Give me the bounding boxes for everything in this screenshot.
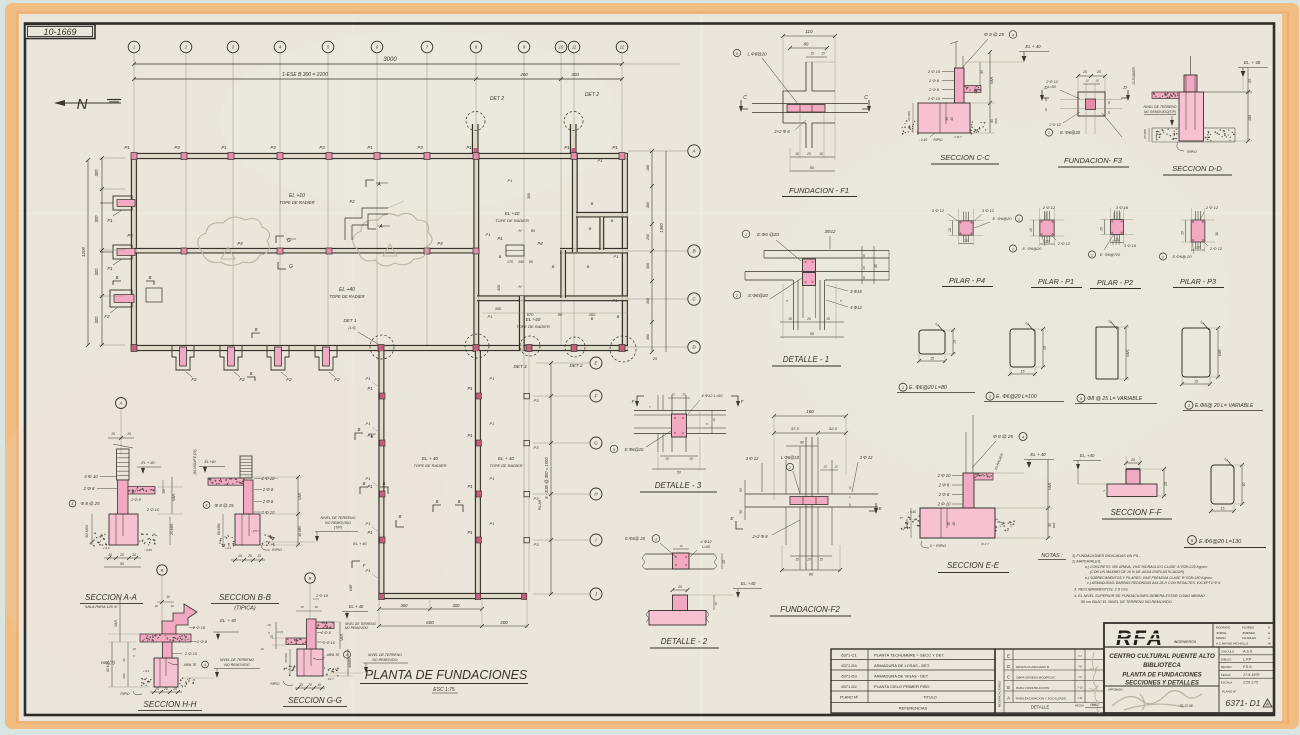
fundacion F3: left labels bbox=[1044, 80, 1080, 112]
seccion D-D: title bbox=[1163, 164, 1232, 175]
pilar P1 bbox=[1029, 208, 1065, 246]
svg-text:DIBUJO: DIBUJO bbox=[1221, 657, 1232, 661]
svg-text:B: B bbox=[250, 371, 253, 376]
svg-text:L Φ6@20: L Φ6@20 bbox=[747, 52, 767, 57]
detalle 1: slab lines bbox=[745, 251, 889, 281]
room divider x602 bbox=[600, 217, 604, 250]
svg-text:E.Φ6@20 L=130: E.Φ6@20 L=130 bbox=[1199, 539, 1242, 545]
svg-text:20: 20 bbox=[1195, 246, 1200, 250]
svg-text:DET 2: DET 2 bbox=[585, 92, 599, 98]
svg-text:VAR.: VAR. bbox=[1048, 482, 1052, 490]
detalle 3: bottom dims bbox=[652, 437, 706, 475]
seccion E-E: column bbox=[963, 473, 974, 508]
svg-text:2 Φ 10: 2 Φ 10 bbox=[146, 507, 160, 512]
svg-text:50 cm BAJO EL NIVEL DE TERREN: 50 cm BAJO EL NIVEL DE TERRENO NO REMOVI… bbox=[1081, 600, 1173, 604]
svg-text:P4: P4 bbox=[127, 233, 133, 238]
wing left wall bbox=[379, 351, 384, 600]
detalle 3: callout 5 bbox=[610, 431, 671, 453]
stirrup type 1 bbox=[917, 322, 957, 363]
svg-text:11: 11 bbox=[572, 45, 576, 50]
pilar P1 title bbox=[1031, 277, 1082, 288]
svg-text:RIPIO: RIPIO bbox=[934, 138, 943, 142]
svg-text:10: 10 bbox=[679, 544, 683, 548]
svg-text:3 Φ 12: 3 Φ 12 bbox=[746, 456, 759, 461]
wing left small marks bbox=[345, 427, 376, 630]
svg-text:1: 1 bbox=[133, 45, 135, 50]
svg-text:DET 1: DET 1 bbox=[343, 318, 356, 323]
svg-text:P1: P1 bbox=[490, 521, 495, 526]
svg-text:300: 300 bbox=[94, 268, 99, 276]
svg-text:A: A bbox=[119, 401, 123, 406]
stirrup note 4 bbox=[1075, 394, 1157, 403]
section G-G: bottom dims + ripio bbox=[270, 677, 334, 690]
svg-text:PLANO Nº: PLANO Nº bbox=[840, 696, 859, 700]
svg-text:P3: P3 bbox=[534, 445, 540, 450]
svg-text:5 - EJE @ 300 = 1500: 5 - EJE @ 300 = 1500 bbox=[544, 457, 549, 499]
section G-G: title bbox=[283, 696, 347, 707]
svg-text:P1: P1 bbox=[614, 254, 619, 259]
svg-text:2+2 Φ 8: 2+2 Φ 8 bbox=[751, 534, 768, 539]
svg-text:4: 4 bbox=[1022, 435, 1024, 439]
svg-text:4 Φ12 L=60: 4 Φ12 L=60 bbox=[701, 393, 723, 398]
svg-text:TOPE DE RADIER: TOPE DE RADIER bbox=[279, 200, 314, 205]
section B-B: right dim bbox=[245, 475, 303, 547]
B section cut marks below wall bbox=[247, 327, 260, 381]
svg-text:G: G bbox=[594, 441, 598, 446]
row label circles A-D bbox=[628, 145, 700, 353]
detalle 3: F cut marks bbox=[632, 396, 745, 407]
section H-H: left dims bbox=[106, 600, 150, 687]
svg-text:3Φ12: 3Φ12 bbox=[824, 229, 836, 234]
svg-text:7-8: 7-8 bbox=[1078, 665, 1082, 669]
svg-text:10: 10 bbox=[1044, 98, 1048, 102]
svg-text:60 MIN.: 60 MIN. bbox=[217, 523, 221, 536]
seccion D-D: level EL+40 bbox=[1203, 60, 1268, 92]
stirrup type 2 bbox=[1008, 321, 1047, 376]
svg-text:5: 5 bbox=[613, 448, 615, 452]
svg-text:25: 25 bbox=[1096, 70, 1101, 74]
fundacion F1: label 2+2 bbox=[773, 120, 806, 134]
DET labels at bottom wall joints bbox=[343, 318, 582, 369]
section G-G: right dims bbox=[323, 622, 353, 676]
section A-A: pink column bbox=[118, 480, 129, 514]
svg-text:2 Φ 8: 2 Φ 8 bbox=[130, 498, 141, 502]
svg-text:NOTAS :: NOTAS : bbox=[1041, 553, 1063, 559]
svg-text:10: 10 bbox=[848, 503, 852, 507]
room wall x563 bbox=[561, 250, 565, 298]
svg-text:10: 10 bbox=[260, 647, 264, 651]
corridor wall right span bbox=[560, 249, 628, 253]
seccion D-D: slab strip left bbox=[1152, 92, 1179, 99]
svg-text:- 0,40: - 0,40 bbox=[919, 138, 928, 142]
svg-text:40: 40 bbox=[1242, 483, 1246, 487]
svg-text:VAR.: VAR. bbox=[1218, 349, 1222, 357]
svg-text:- 0,80: - 0,80 bbox=[144, 548, 152, 552]
svg-text:3 Φ 16: 3 Φ 16 bbox=[1124, 243, 1137, 248]
svg-text:4. EL NIVEL SUPERIOR DE FUNDAC: 4. EL NIVEL SUPERIOR DE FUNDACIONES DEBE… bbox=[1074, 594, 1205, 598]
svg-text:NO REMOVIDO: NO REMOVIDO bbox=[372, 658, 398, 662]
svg-text:EL + 40: EL + 40 bbox=[498, 456, 514, 461]
svg-text:A.: A. bbox=[1268, 631, 1271, 635]
seccion E-E: slab arm bbox=[974, 473, 993, 480]
svg-text:2+2 Φ 8: 2+2 Φ 8 bbox=[773, 129, 790, 134]
svg-text:JORGE: JORGE bbox=[1216, 631, 1226, 635]
svg-text:6371-C1: 6371-C1 bbox=[841, 653, 857, 658]
svg-text:MIN: MIN bbox=[994, 117, 998, 123]
svg-text:P1: P1 bbox=[564, 145, 570, 150]
svg-text:20 MIN: 20 MIN bbox=[907, 110, 911, 122]
stirrup note 1 bbox=[897, 383, 975, 392]
svg-text:10: 10 bbox=[154, 604, 158, 608]
svg-text:380: 380 bbox=[646, 201, 650, 208]
fundacion F1: bottom dims bbox=[790, 62, 835, 173]
svg-text:MIN.: MIN. bbox=[1052, 522, 1056, 528]
left dim chain 300s bbox=[94, 156, 125, 347]
svg-text:A: A bbox=[378, 224, 383, 230]
svg-text:2 Φ 12: 2 Φ 12 bbox=[1205, 205, 1219, 210]
fundacion F3: bottom labels bbox=[1045, 112, 1122, 137]
detalle 3: top dims + label bbox=[668, 393, 723, 415]
svg-text:PLANTA TECHUMBRE = SECC Y DE: PLANTA TECHUMBRE = SECC Y DET. bbox=[874, 653, 945, 658]
svg-text:2 Φ 12: 2 Φ 12 bbox=[1209, 246, 1223, 251]
svg-text:60 MIN.: 60 MIN. bbox=[106, 660, 110, 672]
svg-text:100: 100 bbox=[1248, 115, 1252, 121]
svg-text:20: 20 bbox=[677, 585, 682, 589]
svg-text:20: 20 bbox=[1180, 231, 1184, 236]
fundacion F2: left labels bbox=[746, 455, 873, 494]
svg-text:50: 50 bbox=[677, 471, 681, 475]
svg-text:REVISO: REVISO bbox=[1221, 665, 1232, 669]
pilar P3 title bbox=[1173, 277, 1224, 288]
svg-text:P3: P3 bbox=[270, 145, 276, 150]
svg-text:40: 40 bbox=[950, 117, 954, 121]
section A-A: soil dots bbox=[90, 533, 108, 547]
svg-text:P1: P1 bbox=[488, 314, 493, 319]
svg-text:EL. + 40: EL. + 40 bbox=[1244, 60, 1261, 65]
svg-text:7-7: 7-7 bbox=[1078, 654, 1082, 658]
svg-text:2 Φ 10: 2 Φ 10 bbox=[927, 96, 941, 101]
svg-text:30: 30 bbox=[980, 70, 984, 74]
section H-H: stair zigzag arm bbox=[162, 604, 197, 634]
wing column markers bbox=[367, 386, 539, 600]
svg-text:EL. +40: EL. +40 bbox=[741, 581, 756, 586]
svg-text:20: 20 bbox=[162, 489, 166, 494]
svg-text:300: 300 bbox=[589, 312, 596, 317]
section A-A: rebar labels bbox=[69, 461, 161, 512]
detalle 3: right dims bbox=[649, 405, 716, 434]
north arrow bbox=[54, 96, 121, 113]
svg-text:2 Φ 10: 2 Φ 10 bbox=[261, 510, 275, 515]
section H-H: footing bbox=[154, 658, 178, 687]
svg-text:B: B bbox=[611, 218, 614, 223]
section A-A: 60 MIN rotated bbox=[85, 514, 174, 552]
svg-text:2 Φ 8: 2 Φ 8 bbox=[320, 631, 331, 635]
svg-text:P1: P1 bbox=[221, 145, 227, 150]
svg-text:3000: 3000 bbox=[383, 57, 397, 63]
svg-text:B: B bbox=[363, 481, 366, 486]
svg-text:2 Φ 10: 2 Φ 10 bbox=[937, 473, 951, 478]
right vertical dim chain bbox=[646, 149, 666, 361]
svg-text:15: 15 bbox=[1021, 370, 1025, 374]
svg-text:DET 3: DET 3 bbox=[513, 364, 526, 369]
svg-text:20: 20 bbox=[806, 558, 811, 562]
svg-text:F2: F2 bbox=[191, 377, 197, 382]
fundacion F1: wall cross plan bbox=[752, 62, 868, 148]
seccion E-E: formwork above column bbox=[966, 415, 973, 473]
room wall x520 lower bbox=[520, 296, 525, 351]
dim leader right top bbox=[622, 63, 680, 65]
svg-text:PLANTA CIELO PRIMER PISO: PLANTA CIELO PRIMER PISO bbox=[874, 684, 930, 689]
section B-B: brick column above bbox=[240, 456, 252, 478]
svg-text:RIPIO: RIPIO bbox=[272, 548, 282, 552]
svg-text:60 MIN.: 60 MIN. bbox=[85, 524, 89, 537]
svg-text:P1: P1 bbox=[486, 232, 491, 237]
modifications block bbox=[995, 649, 1104, 713]
corridor wall left span bbox=[134, 249, 479, 253]
section H-H: column bbox=[163, 642, 173, 664]
svg-text:1: 1 bbox=[902, 385, 904, 390]
svg-text:10: 10 bbox=[689, 457, 693, 461]
svg-text:VAR.: VAR. bbox=[114, 619, 118, 627]
svg-text:7-10: 7-10 bbox=[1077, 686, 1083, 690]
svg-text:15: 15 bbox=[795, 152, 799, 156]
fundacion F1: top dims bbox=[781, 29, 837, 160]
svg-text:P1: P1 bbox=[366, 476, 371, 481]
signature area bbox=[1104, 686, 1219, 710]
stirrup type 5 bbox=[1209, 457, 1246, 513]
svg-text:300: 300 bbox=[571, 72, 579, 77]
columns on bottom wall bbox=[131, 345, 625, 352]
svg-text:10: 10 bbox=[132, 647, 136, 651]
svg-text:TITULO: TITULO bbox=[923, 696, 937, 700]
svg-text:15: 15 bbox=[173, 687, 177, 691]
svg-text:NO REMOVIDO(TIP): NO REMOVIDO(TIP) bbox=[1144, 110, 1176, 114]
detalle 1: wall verticals below bbox=[794, 280, 825, 330]
svg-text:Φ 8 @ 25: Φ 8 @ 25 bbox=[214, 503, 234, 508]
svg-text:DET 2: DET 2 bbox=[569, 363, 582, 368]
svg-text:15: 15 bbox=[819, 558, 823, 562]
seccion C-C: callout top bbox=[950, 31, 1017, 68]
section B-B: EL+40 bbox=[199, 460, 225, 473]
section A-A: footing bbox=[109, 514, 138, 545]
svg-text:DETALLE - 2: DETALLE - 2 bbox=[661, 637, 708, 646]
svg-text:15: 15 bbox=[788, 317, 792, 321]
svg-text:4 Φ 10: 4 Φ 10 bbox=[84, 474, 98, 479]
svg-text:EL +40: EL +40 bbox=[526, 317, 541, 322]
svg-text:180: 180 bbox=[646, 164, 650, 171]
detalle 2: upper band bbox=[642, 554, 717, 569]
svg-text:FECHA: FECHA bbox=[1075, 704, 1084, 708]
svg-text:4: 4 bbox=[72, 502, 74, 506]
svg-text:P1: P1 bbox=[366, 376, 371, 381]
engineer names bbox=[1213, 623, 1272, 647]
svg-text:P1: P1 bbox=[367, 386, 372, 391]
svg-text:(TIP): (TIP) bbox=[334, 526, 342, 530]
svg-text:3 Φ 12: 3 Φ 12 bbox=[932, 208, 945, 213]
svg-text:15: 15 bbox=[238, 554, 242, 558]
svg-text:20: 20 bbox=[1130, 458, 1135, 462]
svg-text:P1: P1 bbox=[598, 158, 603, 163]
svg-text:P4: P4 bbox=[437, 241, 443, 246]
seccion C-C: footing bbox=[918, 103, 970, 133]
svg-text:10-RADIER: 10-RADIER bbox=[1132, 67, 1136, 85]
section H-H: bottom dims bbox=[120, 669, 182, 696]
svg-text:4: 4 bbox=[206, 504, 208, 508]
svg-text:300: 300 bbox=[646, 297, 650, 304]
section G-G: labels bbox=[267, 623, 350, 660]
section B-B: footing bbox=[235, 514, 260, 545]
svg-text:3 Φ 12: 3 Φ 12 bbox=[982, 208, 995, 213]
svg-text:10: 10 bbox=[1107, 111, 1111, 115]
svg-text:300: 300 bbox=[94, 316, 99, 324]
seccion F-F: title bbox=[1102, 508, 1172, 519]
svg-text:3 Φ 16: 3 Φ 16 bbox=[1116, 205, 1129, 210]
svg-text:EL + 40: EL + 40 bbox=[353, 541, 367, 546]
svg-text:20: 20 bbox=[806, 317, 811, 321]
svg-text:D: D bbox=[1007, 664, 1010, 669]
svg-text:- 0,40: - 0,40 bbox=[908, 510, 916, 514]
svg-text:25: 25 bbox=[1043, 346, 1047, 351]
detalle 1: bottom dims bbox=[780, 284, 844, 339]
section G-G: EL+40 level bbox=[334, 604, 368, 622]
fundacion F3: D cut marks bbox=[1040, 85, 1130, 115]
svg-text:2 Φ 10: 2 Φ 10 bbox=[322, 641, 336, 645]
section A-A: below dims bbox=[104, 553, 141, 567]
fundacion F2: lower labels bbox=[751, 520, 842, 577]
svg-text:C: C bbox=[743, 95, 747, 101]
svg-text:50: 50 bbox=[739, 510, 743, 514]
svg-text:970: 970 bbox=[527, 312, 534, 317]
section B-B: terrain note bbox=[262, 516, 358, 542]
svg-text:5 ~ RIPIO: 5 ~ RIPIO bbox=[930, 544, 946, 548]
svg-text:P3: P3 bbox=[417, 145, 423, 150]
svg-text:6371-D4: 6371-D4 bbox=[841, 663, 857, 668]
svg-text:600: 600 bbox=[426, 620, 434, 625]
svg-text:ARMADURA DE VIGAS - DET: ARMADURA DE VIGAS - DET bbox=[874, 674, 929, 679]
section H-H: slab bbox=[140, 634, 191, 642]
svg-text:2 Φ ?: 2 Φ ? bbox=[953, 135, 962, 139]
svg-text:PLANTA DE FUNDACIONES: PLANTA DE FUNDACIONES bbox=[365, 668, 528, 682]
svg-text:1200: 1200 bbox=[81, 246, 86, 257]
svg-text:2 Φ 8: 2 Φ 8 bbox=[928, 78, 940, 83]
svg-text:TOPE DE RADIER: TOPE DE RADIER bbox=[490, 463, 523, 468]
seccion F-F: pink T bbox=[1107, 469, 1157, 497]
svg-text:2 Φ 10: 2 Φ 10 bbox=[184, 651, 198, 656]
svg-text:1: 1 bbox=[1048, 131, 1050, 135]
fundacion F1: title bbox=[782, 186, 857, 197]
svg-text:2 Φ 12: 2 Φ 12 bbox=[1048, 123, 1062, 127]
svg-text:SECCION A-A: SECCION A-A bbox=[85, 593, 137, 602]
svg-text:30: 30 bbox=[974, 90, 978, 94]
svg-text:SECCION H-H: SECCION H-H bbox=[144, 700, 197, 709]
seccion E-E: callout top bbox=[972, 433, 1027, 469]
svg-text:2 Φ 8: 2 Φ 8 bbox=[928, 87, 940, 92]
svg-text:B: B bbox=[499, 254, 502, 259]
svg-text:17-5-1978: 17-5-1978 bbox=[1243, 673, 1259, 677]
svg-text:E. Φ6@20: E. Φ6@20 bbox=[1023, 246, 1043, 251]
svg-text:NO REMOVIDO: NO REMOVIDO bbox=[345, 626, 369, 630]
section G-G: soil bbox=[284, 665, 296, 676]
fundacion F2: title bbox=[770, 605, 851, 616]
svg-text:E.Φ6@20: E.Φ6@20 bbox=[748, 293, 768, 298]
wing radier labels bbox=[414, 456, 523, 468]
seccion C-C: column bbox=[955, 68, 965, 103]
svg-text:P1: P1 bbox=[366, 568, 371, 573]
outer dim 1200 bbox=[81, 158, 90, 347]
svg-text:VAR.: VAR. bbox=[990, 76, 994, 84]
stirrup note 5 bbox=[1184, 536, 1266, 548]
room wall y215 bbox=[576, 213, 628, 217]
seccion C-C: title bbox=[931, 153, 999, 164]
svg-text:20 MIN.: 20 MIN. bbox=[170, 523, 174, 536]
top stub column 8 bbox=[473, 124, 478, 154]
seccion D-D: terrain note bbox=[1144, 105, 1177, 126]
svg-text:SECCION F-F: SECCION F-F bbox=[1110, 508, 1162, 517]
stirrup note 2 bbox=[984, 392, 1064, 401]
svg-text:SECCION B-B: SECCION B-B bbox=[219, 593, 272, 602]
svg-text:400: 400 bbox=[520, 72, 528, 77]
svg-text:P1: P1 bbox=[490, 476, 495, 481]
section B-B: pink column bbox=[244, 480, 254, 514]
section H-H: terrain note bbox=[183, 658, 260, 678]
svg-text:2 Φ 12: 2 Φ 12 bbox=[1042, 205, 1056, 210]
svg-text:2 Φ 8: 2 Φ 8 bbox=[262, 499, 274, 504]
svg-text:B: B bbox=[161, 568, 164, 573]
seccion D-D: ripio bbox=[1143, 128, 1197, 154]
svg-text:E.Φ6@20: E.Φ6@20 bbox=[625, 447, 644, 452]
svg-text:4: 4 bbox=[204, 663, 206, 667]
svg-text:PARA EXCAVACION Y SOCALZADO: PARA EXCAVACION Y SOCALZADO bbox=[1016, 697, 1067, 701]
svg-text:2 Φ 8: 2 Φ 8 bbox=[196, 639, 208, 644]
svg-text:SALA PARA 120 ④: SALA PARA 120 ④ bbox=[85, 605, 118, 609]
svg-text:P1: P1 bbox=[490, 376, 495, 381]
svg-text:P3: P3 bbox=[534, 542, 540, 547]
svg-text:a.) CONCRETO: 300 GRAVA, VIVE: a.) CONCRETO: 300 GRAVA, VIVE HIDRAULICO… bbox=[1085, 565, 1208, 569]
svg-text:+ 0,4: + 0,4 bbox=[103, 546, 110, 550]
plan top wall bbox=[131, 154, 628, 159]
pilar P4 title bbox=[942, 276, 993, 287]
svg-text:RIPIO: RIPIO bbox=[120, 692, 130, 696]
svg-text:P1: P1 bbox=[508, 178, 513, 183]
svg-text:EL. + 40: EL. + 40 bbox=[220, 618, 236, 623]
svg-text:30: 30 bbox=[1215, 232, 1219, 236]
svg-text:P3: P3 bbox=[534, 398, 540, 403]
svg-text:7-9: 7-9 bbox=[1078, 675, 1082, 679]
svg-text:EL + 40: EL + 40 bbox=[422, 456, 438, 461]
svg-text:10: 10 bbox=[834, 465, 838, 469]
svg-text:2 Φ 10: 2 Φ 10 bbox=[937, 502, 951, 507]
svg-text:EL. +40: EL. +40 bbox=[1080, 453, 1095, 458]
svg-text:VAR: VAR bbox=[349, 584, 353, 591]
svg-text:2 Φ 8: 2 Φ 8 bbox=[938, 483, 950, 488]
title block field rows bbox=[1219, 647, 1274, 713]
fundacion F3: top dims bbox=[1076, 70, 1107, 92]
wing B cut marks bbox=[360, 481, 463, 527]
seccion D-D: right dims bbox=[1205, 68, 1252, 144]
fundacion F1: pink rebar bar bbox=[787, 105, 825, 113]
seccion E-E: title bbox=[938, 561, 1009, 573]
svg-text:40 MIN: 40 MIN bbox=[284, 652, 288, 663]
seccion F-F: dims bbox=[1103, 456, 1168, 498]
svg-text:1: 1 bbox=[655, 537, 657, 541]
svg-text:P1: P1 bbox=[490, 421, 495, 426]
stirrup note 3 bbox=[1183, 401, 1263, 410]
seccion E-E: rebar labels bbox=[937, 473, 963, 526]
wing column line x524 bbox=[524, 352, 529, 598]
seccion D-D: soil strip bbox=[1152, 128, 1235, 142]
svg-text:P4: P4 bbox=[237, 241, 243, 246]
svg-text:E.Φ6@ 20: E.Φ6@ 20 bbox=[625, 536, 646, 541]
